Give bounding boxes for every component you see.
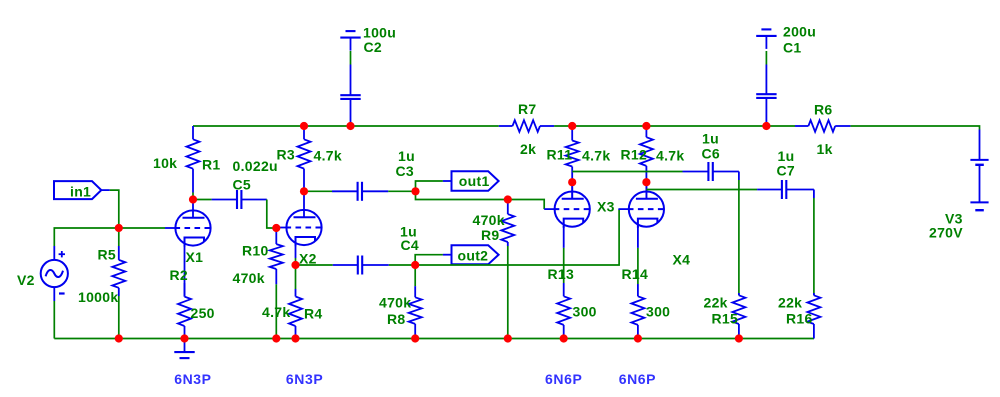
resistor R12 bbox=[640, 127, 653, 199]
wire R8 top bbox=[414, 265, 416, 286]
svg-text:out1: out1 bbox=[459, 173, 490, 189]
capacitor C6 bbox=[683, 162, 739, 181]
node R14 gnd bbox=[634, 334, 642, 342]
svg-text:R2: R2 bbox=[170, 267, 189, 283]
battery V3 bbox=[970, 130, 988, 211]
svg-text:C3: C3 bbox=[396, 163, 415, 179]
wire R1 to plate node bbox=[192, 193, 194, 200]
resistor R1 bbox=[187, 126, 200, 193]
wire V2 to ground rail bbox=[53, 301, 55, 339]
node out2 bbox=[411, 261, 419, 269]
wire in1 to grid node bbox=[110, 190, 119, 224]
wire out1 riser bbox=[416, 181, 443, 191]
svg-text:1u: 1u bbox=[702, 131, 719, 147]
svg-text:X2: X2 bbox=[299, 251, 317, 267]
node X2 plate bbox=[300, 187, 308, 195]
node R5 gnd bbox=[115, 334, 123, 342]
port out2 bbox=[443, 245, 499, 264]
node R3 rail bbox=[300, 122, 308, 130]
node R9 gnd bbox=[504, 334, 512, 342]
wire grid row to V2 bbox=[54, 228, 165, 246]
wire R5 top bbox=[118, 224, 120, 246]
svg-text:6N3P: 6N3P bbox=[286, 371, 323, 387]
svg-text:6N3P: 6N3P bbox=[174, 371, 211, 387]
svg-text:R4: R4 bbox=[304, 306, 323, 322]
svg-text:10k: 10k bbox=[153, 155, 177, 171]
wire X3 cathode (pin) bbox=[563, 226, 565, 248]
wire X2 cathode node down bbox=[295, 265, 297, 289]
svg-text:1k: 1k bbox=[817, 141, 833, 157]
wire C7 corner (pin) bbox=[813, 190, 815, 199]
resistor R2 bbox=[178, 283, 191, 339]
wire B+ rail middle segment bbox=[554, 125, 795, 127]
svg-text:C5: C5 bbox=[233, 177, 252, 193]
wire gnd to C1 bbox=[765, 51, 767, 65]
node X1 plate bbox=[189, 195, 197, 203]
wire X1 cathode (pin) bbox=[184, 244, 186, 297]
wire R5 bottom bbox=[118, 296, 120, 339]
node R4 gnd bbox=[291, 334, 299, 342]
resistor R6 bbox=[795, 120, 850, 132]
svg-text:270V: 270V bbox=[929, 225, 963, 241]
svg-text:470k: 470k bbox=[233, 270, 265, 286]
capacitor C4 bbox=[333, 256, 389, 275]
svg-text:in1: in1 bbox=[70, 184, 91, 200]
wire B+ rail left segment bbox=[193, 125, 499, 127]
wire X4 cathode bbox=[637, 248, 639, 284]
svg-text:R16: R16 bbox=[786, 311, 813, 327]
node R10 gnd bbox=[272, 334, 280, 342]
svg-text:R10: R10 bbox=[242, 242, 269, 258]
svg-text:0.022u: 0.022u bbox=[233, 158, 278, 174]
node C1 rail bbox=[762, 122, 770, 130]
resistor R7 bbox=[499, 120, 554, 132]
wire X4 cathode (pin) bbox=[637, 226, 639, 248]
triode X3 bbox=[544, 182, 590, 228]
svg-text:22k: 22k bbox=[704, 295, 728, 311]
svg-text:4.7k: 4.7k bbox=[656, 148, 684, 164]
resistor R5 bbox=[112, 246, 125, 296]
wire C7 down to R16 bbox=[813, 198, 815, 295]
svg-text:X1: X1 bbox=[186, 249, 204, 265]
wire X3 cathode bbox=[563, 248, 565, 283]
capacitor C1 bbox=[756, 65, 776, 125]
svg-text:out2: out2 bbox=[458, 247, 489, 263]
resistor R15 bbox=[732, 293, 745, 339]
node X2 grid bbox=[272, 224, 280, 232]
wire X4 plate to C7 bbox=[646, 189, 757, 191]
svg-text:R14: R14 bbox=[622, 266, 649, 282]
ground (flipped) bbox=[340, 31, 360, 50]
resistor R14 bbox=[631, 284, 644, 339]
wire ground rail bbox=[54, 338, 814, 340]
svg-text:C4: C4 bbox=[401, 237, 420, 253]
node X4 plate bbox=[642, 178, 650, 186]
wire C5 to X2 grid bbox=[267, 200, 277, 229]
svg-text:C6: C6 bbox=[702, 146, 721, 162]
wire out2 riser bbox=[415, 255, 443, 265]
svg-text:R11: R11 bbox=[547, 147, 573, 163]
node in/grid X1 bbox=[115, 224, 123, 232]
resistor R4 bbox=[289, 289, 302, 339]
svg-text:470k: 470k bbox=[379, 295, 411, 311]
svg-text:1000k: 1000k bbox=[78, 289, 118, 305]
wire X2 cathode to C4 bbox=[296, 264, 333, 266]
svg-text:R6: R6 bbox=[814, 102, 833, 118]
node C2 rail bbox=[346, 122, 354, 130]
svg-text:X4: X4 bbox=[673, 252, 691, 268]
node R12 rail bbox=[642, 122, 650, 130]
svg-text:250: 250 bbox=[191, 305, 215, 321]
capacitor C3 bbox=[332, 182, 388, 201]
node R9 top bbox=[504, 195, 512, 203]
node X3 plate bbox=[568, 178, 576, 186]
triode X1 bbox=[165, 200, 211, 247]
node R8 gnd bbox=[411, 334, 419, 342]
wire X2 cathode to node bbox=[295, 258, 297, 265]
resistor R3 bbox=[298, 126, 311, 190]
wire R10 bottom bbox=[275, 284, 277, 338]
resistor R11 bbox=[566, 127, 579, 199]
voltage source V2 bbox=[41, 246, 68, 301]
capacitor C7 bbox=[757, 180, 814, 199]
wire R9 node to X3 grid bbox=[508, 200, 544, 210]
node R13 gnd bbox=[560, 334, 568, 342]
svg-text:2k: 2k bbox=[520, 141, 536, 157]
wire X2 cathode (pin) bbox=[295, 244, 297, 258]
wire out2 row to X4 grid riser bbox=[415, 209, 619, 265]
port out1 bbox=[443, 171, 499, 191]
svg-text:R8: R8 bbox=[387, 311, 406, 327]
svg-text:R15: R15 bbox=[712, 311, 739, 327]
svg-text:R7: R7 bbox=[518, 101, 537, 117]
svg-text:300: 300 bbox=[646, 304, 670, 320]
svg-text:R5: R5 bbox=[98, 247, 117, 263]
svg-text:R13: R13 bbox=[548, 266, 575, 282]
triode X4 bbox=[618, 182, 664, 228]
resistor R13 bbox=[557, 283, 570, 339]
svg-text:6N6P: 6N6P bbox=[619, 371, 656, 387]
node R2 gnd bbox=[180, 334, 188, 342]
triode X2 bbox=[276, 191, 322, 246]
svg-text:R1: R1 bbox=[202, 157, 221, 173]
svg-text:R9: R9 bbox=[481, 227, 500, 243]
wire B+ rail right segment bbox=[850, 126, 979, 130]
wire X2 plate to C3 bbox=[304, 190, 332, 192]
wire out1 node down-right to R9 node bbox=[416, 191, 508, 199]
svg-text:C1: C1 bbox=[783, 39, 802, 55]
resistor R9 bbox=[501, 200, 514, 247]
wire C6 corner (pin) bbox=[738, 172, 740, 181]
svg-text:C2: C2 bbox=[364, 39, 383, 55]
svg-text:R12: R12 bbox=[621, 147, 648, 163]
svg-text:R3: R3 bbox=[277, 147, 296, 163]
ground bbox=[174, 339, 194, 359]
wire plate X1 to C5 bbox=[193, 199, 212, 201]
node R11 rail bbox=[568, 122, 576, 130]
svg-text:V2: V2 bbox=[17, 272, 35, 288]
svg-text:X3: X3 bbox=[597, 199, 615, 215]
resistor R10 bbox=[270, 228, 283, 284]
resistor R8 bbox=[409, 286, 422, 339]
svg-text:470k: 470k bbox=[473, 212, 505, 228]
svg-text:100u: 100u bbox=[363, 25, 396, 41]
capacitor C2 bbox=[340, 65, 360, 125]
wire C4 to out2 node bbox=[389, 264, 415, 266]
node X2 cathode bbox=[291, 261, 299, 269]
wire C6 down to R15 bbox=[738, 180, 740, 295]
wire gnd to C2 bbox=[350, 51, 352, 65]
svg-text:C7: C7 bbox=[777, 163, 796, 179]
svg-text:300: 300 bbox=[573, 304, 597, 320]
ground (flipped) bbox=[756, 29, 776, 49]
svg-text:4.7k: 4.7k bbox=[582, 148, 610, 164]
wire X3 plate to C6 bbox=[572, 171, 682, 173]
svg-text:4.7k: 4.7k bbox=[262, 304, 290, 320]
port in1 bbox=[54, 181, 110, 199]
svg-text:4.7k: 4.7k bbox=[314, 148, 342, 164]
resistor R16 bbox=[807, 293, 820, 339]
wire C3 to out1 node bbox=[388, 190, 415, 192]
capacitor C5 bbox=[212, 190, 267, 209]
svg-text:200u: 200u bbox=[783, 24, 816, 40]
svg-text:1u: 1u bbox=[398, 148, 415, 164]
svg-text:22k: 22k bbox=[778, 295, 802, 311]
wire R9 bottom bbox=[507, 246, 509, 339]
svg-text:6N6P: 6N6P bbox=[545, 371, 582, 387]
node out1 bbox=[411, 187, 419, 195]
node R15 gnd bbox=[735, 334, 743, 342]
